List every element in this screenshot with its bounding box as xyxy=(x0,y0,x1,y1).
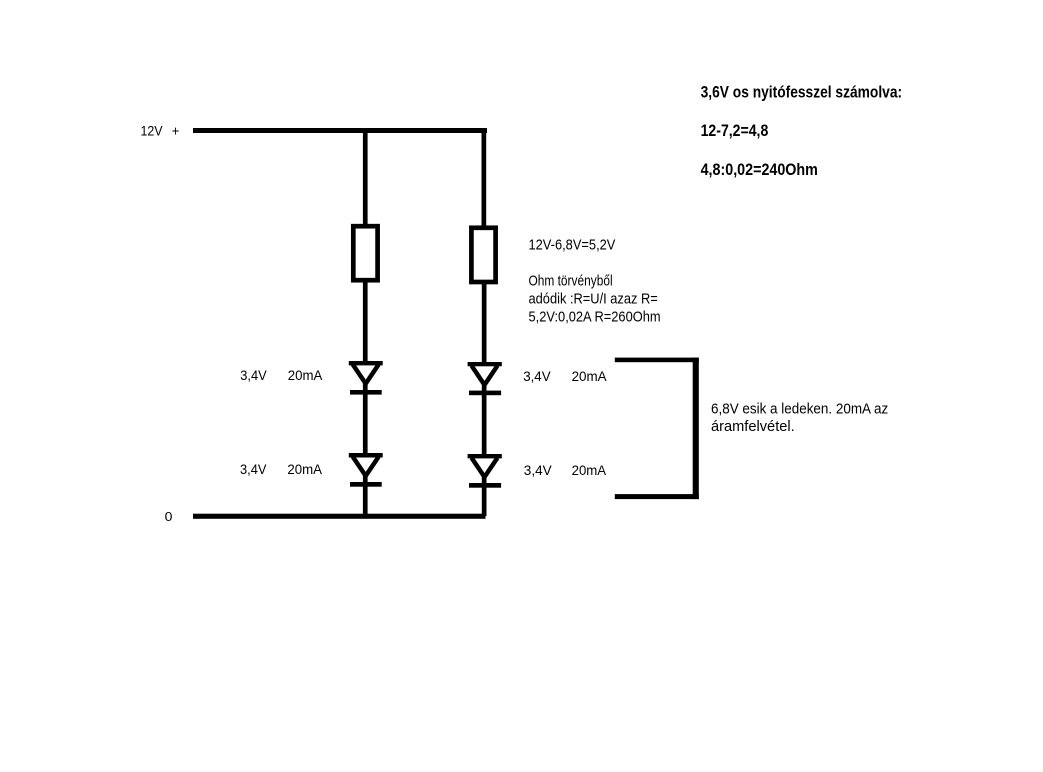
svg-text:+: + xyxy=(172,122,180,138)
value label: D1 current 20mA xyxy=(288,367,323,383)
value label: D4 current 20mA xyxy=(572,462,607,478)
label: 0V rail xyxy=(165,509,173,524)
label: 12V supply xyxy=(141,122,164,138)
wire: LED D1 to LED D2 xyxy=(363,382,368,454)
wire: LED D3 to LED D4 xyxy=(482,383,487,455)
LED D3 xyxy=(468,362,502,395)
svg-text:3,6V os nyitófesszel számolva:: 3,6V os nyitófesszel számolva: xyxy=(701,84,903,102)
svg-text:4,8:0,02=240Ohm: 4,8:0,02=240Ohm xyxy=(701,161,818,179)
note: Ohm's law line 1 xyxy=(529,273,613,290)
note: LED chain voltage line 1 xyxy=(711,400,888,417)
value label: D1 forward voltage 3,4V xyxy=(240,367,267,383)
wire: top rail to resistor R2 xyxy=(482,128,487,226)
label: plus polarity xyxy=(172,122,180,138)
heading: alternative calculation title xyxy=(701,84,903,102)
node A: left branch junction on top rail xyxy=(363,131,368,133)
svg-text:20mA: 20mA xyxy=(288,367,323,383)
svg-text:6,8V esik a ledeken. 20mA az: 6,8V esik a ledeken. 20mA az xyxy=(711,400,888,417)
value label: D3 current 20mA xyxy=(572,368,608,384)
svg-text:Ohm törvényből: Ohm törvényből xyxy=(529,273,613,290)
value label: D2 forward voltage 3,4V xyxy=(240,461,267,477)
svg-text:0: 0 xyxy=(165,509,173,524)
brace: bottom arm of LED-chain bracket xyxy=(615,494,699,499)
wire: resistor R1 to LED D1 xyxy=(363,280,368,362)
svg-text:adódik :R=U/I azaz R=: adódik :R=U/I azaz R= xyxy=(529,291,658,308)
heading: alternative calculation line 2 xyxy=(701,122,769,140)
resistor R1 xyxy=(353,226,377,280)
note: Ohm's law line 2 xyxy=(529,291,658,308)
wire: LED D4 to ground rail xyxy=(482,475,487,516)
wire: 0V bottom rail xyxy=(193,514,486,519)
svg-text:3,4V: 3,4V xyxy=(523,368,551,384)
wire: LED D2 to ground rail xyxy=(363,474,368,516)
svg-text:20mA: 20mA xyxy=(572,368,608,384)
LED D2 xyxy=(349,453,383,487)
svg-text:3,4V: 3,4V xyxy=(524,462,553,478)
LED D4 xyxy=(468,454,502,488)
wire: +12V top rail xyxy=(193,128,487,133)
heading: alternative calculation line 3 xyxy=(701,161,818,179)
svg-text:3,4V: 3,4V xyxy=(240,367,267,383)
wire: top rail to resistor R1 xyxy=(363,133,368,224)
LED D1 (anode line) xyxy=(349,361,383,395)
svg-text:12V-6,8V=5,2V: 12V-6,8V=5,2V xyxy=(529,236,616,253)
svg-text:12V: 12V xyxy=(141,122,164,138)
value label: D2 current 20mA xyxy=(287,461,322,477)
value label: D3 forward voltage 3,4V xyxy=(523,368,551,384)
brace: vertical bar of LED-chain bracket xyxy=(693,358,699,500)
svg-text:12-7,2=4,8: 12-7,2=4,8 xyxy=(701,122,769,140)
note: resistor voltage equation xyxy=(529,236,616,253)
svg-text:5,2V:0,02A R=260Ohm: 5,2V:0,02A R=260Ohm xyxy=(529,308,661,325)
svg-text:20mA: 20mA xyxy=(572,462,607,478)
wire: resistor R2 to LED D3 xyxy=(482,282,487,363)
note: LED chain voltage line 2 xyxy=(711,418,795,435)
value label: D4 forward voltage 3,4V xyxy=(524,462,553,478)
svg-text:20mA: 20mA xyxy=(287,461,322,477)
resistor R2 xyxy=(471,228,495,282)
svg-text:3,4V: 3,4V xyxy=(240,461,267,477)
brace: top arm of LED-chain bracket xyxy=(615,358,699,363)
note: Ohm's law line 3 xyxy=(529,308,661,325)
svg-text:áramfelvétel.: áramfelvétel. xyxy=(711,418,795,435)
